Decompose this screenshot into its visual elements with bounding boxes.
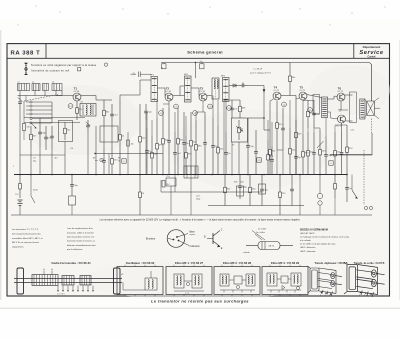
connector jack PU — [166, 178, 176, 186]
svg-text:Schéma général: Schéma général — [187, 49, 223, 54]
resistor R27 — [334, 175, 336, 184]
capacitor C10 — [145, 104, 147, 111]
antenna coil L3 — [43, 84, 49, 91]
capacitor on rail C15 — [200, 64, 205, 69]
resistor R7 — [139, 104, 141, 137]
svg-text:P.U.: P.U. — [167, 176, 171, 178]
resistor R33 — [267, 140, 269, 155]
antenna winding 3 — [80, 276, 91, 286]
wire left lower links — [20, 154, 65, 156]
battery supply — [19, 175, 21, 184]
ferrite antenna L1 — [18, 84, 30, 91]
capacitor C24 — [71, 175, 73, 185]
wire lower verticals — [299, 175, 301, 216]
output transformer S5 — [360, 99, 365, 119]
svg-text:1,4: 1,4 — [283, 104, 286, 106]
svg-text:ensembles filtres MF 1, MF 2,: ensembles filtres MF 1, MF 2, et — [12, 237, 43, 240]
svg-text:2: 2 — [325, 294, 326, 296]
svg-text:Département: Département — [363, 45, 381, 49]
driver transformer — [322, 97, 328, 118]
svg-text:2k7: 2k7 — [167, 184, 170, 186]
wire top rail — [161, 63, 372, 102]
svg-text:OA 70 ET OA 79: OA 70 ET OA 79 — [300, 232, 314, 235]
resistor R4 — [103, 100, 105, 110]
capacitor C27 — [291, 175, 293, 190]
wire pot down — [238, 142, 240, 175]
resistor R25 — [249, 175, 251, 188]
svg-text:9: 9 — [330, 163, 331, 165]
svg-text:3: 3 — [329, 294, 330, 296]
current point squares — [122, 159, 126, 163]
svg-text:R6: R6 — [71, 148, 73, 150]
svg-text:font respectivement partie: font respectivement partie des — [12, 233, 41, 236]
svg-text:0,2: 0,2 — [228, 108, 231, 110]
wire T5 emitter — [302, 99, 304, 102]
capacitor C16 — [238, 85, 242, 87]
ferrite antenna L2 — [32, 84, 40, 91]
capacitor C11 — [168, 108, 170, 140]
horizontal links left — [24, 117, 85, 119]
ferrite rod antenna drawing — [14, 278, 122, 280]
svg-text:Le 1er chiffre est le plu: Le 1er chiffre est le plus éloigné du co… — [300, 243, 336, 246]
transistor T1 — [73, 93, 81, 101]
header title block divider — [7, 57, 390, 59]
capacitor C17 — [231, 100, 233, 108]
capacitor C40 — [45, 126, 47, 137]
filter MF1 internals — [174, 274, 184, 288]
svg-text:à la cathode.: à la cathode. — [300, 239, 312, 242]
resistor R35 — [302, 134, 304, 152]
svg-text:pour le réglage de P.U.: pour le réglage de P.U. — [250, 71, 272, 74]
IF transformer MF3 — [223, 78, 230, 102]
capacitor C35 — [295, 140, 297, 156]
resistor R21 — [346, 125, 348, 147]
resistor R11 — [190, 112, 192, 141]
switch wiper arrow — [31, 123, 36, 128]
capacitor C3 — [51, 126, 53, 136]
wire output emitters — [340, 101, 342, 110]
svg-text:a1: a1 — [18, 82, 20, 84]
wire T1 collector — [81, 95, 96, 97]
svg-text:1er chiffre: 1er chiffre — [256, 232, 266, 234]
capacitor C2 — [39, 118, 41, 132]
capacitor C19 — [255, 130, 257, 151]
svg-text:10k: 10k — [131, 144, 134, 146]
resistor R24 — [224, 175, 226, 188]
capacitor C13 — [183, 112, 185, 142]
svg-text:C24: C24 — [196, 196, 199, 198]
svg-text:1 2 3 4 5: 1 2 3 4 5 — [57, 294, 66, 296]
voltage point T2 — [174, 104, 179, 109]
svg-text:DIODES AU GERMANIUM: DIODES AU GERMANIUM — [300, 229, 328, 232]
svg-text:OA 70: OA 70 — [268, 244, 275, 247]
capacitor C7 — [111, 104, 113, 114]
svg-text:100µ: 100µ — [242, 186, 247, 188]
transistor T5 — [299, 92, 307, 100]
wire T5 base — [296, 98, 299, 99]
resistor R6 — [111, 148, 113, 159]
resistor R23 — [139, 175, 141, 193]
wire T2 links — [156, 100, 158, 118]
svg-text:OC 72: OC 72 — [337, 91, 344, 93]
diode OA70 — [229, 85, 238, 87]
output stage outline box — [350, 92, 357, 123]
svg-text:que le détecteur.: que le détecteur. — [67, 248, 83, 251]
transistor symbol diagram — [212, 233, 214, 244]
svg-text:Oscillateur : FO 66 32: Oscillateur : FO 66 32 — [126, 261, 155, 265]
resistor R19 — [307, 132, 309, 151]
svg-text:C = 66 pF: C = 66 pF — [253, 69, 263, 71]
wire T4 base up — [269, 101, 271, 130]
svg-text:OA 79 : étalonnée: OA 79 : étalonnée — [300, 250, 316, 253]
wire detector out — [248, 85, 264, 87]
svg-text:T7: T7 — [338, 109, 342, 113]
svg-text:détériore immédiatement ains: détériore immédiatement ainsi — [67, 244, 96, 247]
IF transformer MF1 — [151, 77, 158, 102]
svg-text:Filtre MF 2 : FO 66 28: Filtre MF 2 : FO 66 28 — [223, 261, 252, 265]
resistor R17 — [295, 96, 297, 133]
capacitor C25 — [239, 175, 241, 186]
svg-text:OC 45: OC 45 — [199, 91, 206, 93]
svg-text:Émetteur: Émetteur — [146, 237, 156, 240]
antenna coil L4 — [52, 84, 62, 91]
svg-text:RA 388 T: RA 388 T — [11, 50, 41, 56]
svg-text:47k: 47k — [27, 127, 30, 129]
capacitor C32 — [212, 118, 214, 145]
voltage point T1 — [68, 104, 73, 109]
svg-text:0,7: 0,7 — [69, 106, 72, 108]
svg-text:OC 71: OC 71 — [273, 90, 280, 92]
svg-text:transistor monté à l'envers: transistor monté à l'envers se — [67, 240, 96, 243]
earphone jack — [317, 193, 322, 198]
svg-text:1,6: 1,6 — [309, 110, 312, 112]
capacitor C8 — [103, 148, 105, 160]
wire fill verticals — [146, 112, 148, 128]
svg-text:Cadre Ferroxcube : FO 66 31: Cadre Ferroxcube : FO 66 31 — [51, 261, 91, 265]
capacitor C14 — [204, 112, 206, 142]
detector transformer — [212, 78, 219, 99]
wire rail drop MF2 — [195, 63, 197, 79]
svg-text:1,2: 1,2 — [160, 113, 163, 115]
svg-text:1 2 3: 1 2 3 — [185, 293, 189, 295]
capacitor C21 — [313, 100, 315, 113]
wire to T4 base — [263, 118, 265, 130]
svg-text:Service: Service — [359, 50, 383, 56]
switch S2 mains — [30, 175, 32, 197]
svg-text:3: 3 — [370, 294, 371, 296]
resistor R32 — [217, 126, 219, 148]
wire nets T5 — [307, 128, 309, 132]
network box — [100, 126, 118, 142]
transistor T3 — [199, 93, 207, 101]
svg-text:séparément.: séparément. — [12, 245, 24, 248]
tuning gang dashed link — [24, 95, 58, 102]
capacitor C20 — [282, 108, 284, 128]
resistor R18 — [307, 100, 309, 111]
svg-text:cathode: cathode — [243, 251, 250, 254]
wire avc feedback line — [95, 153, 163, 155]
wire lower mid rail — [208, 205, 304, 207]
switch S3 — [351, 175, 353, 191]
svg-text:Les transistors T 1, T 2,: Les transistors T 1, T 2, T 3 — [12, 228, 39, 231]
svg-text:C: C — [221, 229, 223, 232]
resistor R42 — [127, 140, 130, 146]
capacitor C34 — [271, 146, 273, 159]
capacitor C36 — [325, 136, 327, 154]
thermistor R22 — [319, 130, 321, 150]
header service box — [353, 44, 355, 59]
transistor pinout diagram — [167, 230, 185, 248]
svg-text:10k: 10k — [93, 158, 96, 160]
resistor R26 — [279, 175, 281, 193]
terminal circles right — [364, 206, 367, 209]
svg-text:9 V: 9 V — [15, 194, 19, 196]
loudspeaker LS — [367, 101, 375, 116]
svg-text:Les tensions relevées avec: Les tensions relevées avec un appareil d… — [100, 219, 301, 222]
svg-text:2,5: 2,5 — [258, 160, 261, 162]
svg-text:S2: S2 — [81, 102, 83, 104]
resistor R3 — [76, 101, 78, 108]
oscillator trimmer C6 — [87, 120, 89, 125]
svg-text:transistor, veiller à le m: transistor, veiller à le monter — [67, 231, 94, 234]
svg-text:a3: a3 — [52, 82, 54, 84]
svg-text:OC 44: OC 44 — [73, 91, 80, 93]
svg-text:6: 6 — [123, 161, 124, 163]
IF transformer MF2 — [185, 76, 192, 102]
resistor R40 — [23, 124, 26, 131]
paper mottling — [20, 85, 140, 155]
svg-text:1: 1 — [101, 160, 102, 162]
wire T1 base — [56, 95, 73, 97]
volume potentiometer P1 — [232, 118, 248, 142]
svg-text:R8: R8 — [118, 158, 120, 160]
capacitor C31 — [174, 132, 176, 152]
wire driver secondary — [328, 98, 335, 100]
wire bottom rail — [11, 214, 372, 216]
svg-text:1k: 1k — [118, 160, 120, 162]
resistor R34 — [289, 128, 291, 149]
svg-text:MF 3. Ils ne sont pas fou: MF 3. Ils ne sont pas fournis — [12, 241, 39, 244]
transistor T4 — [273, 92, 281, 100]
wire bias links — [319, 128, 321, 130]
svg-text:OC 71: OC 71 — [299, 90, 306, 92]
svg-text:OA 70 : détectrice: OA 70 : détectrice — [300, 246, 315, 249]
voltage point T3 — [208, 104, 213, 109]
transistor T6 — [337, 93, 345, 101]
capacitor C23 — [341, 132, 343, 152]
svg-text:OC 45: OC 45 — [165, 91, 172, 93]
resistor R30 — [151, 136, 153, 153]
wire speaker dashed — [371, 119, 373, 134]
svg-text:Le transistor ne résiste p: Le transistor ne résiste pas aux surchar… — [151, 299, 249, 304]
filter MF3 internals — [267, 273, 277, 286]
capacitor C26 — [261, 175, 263, 190]
svg-text:1: 1 — [320, 294, 321, 296]
capacitor C30 — [146, 128, 148, 150]
svg-text:Le marquage se fait en an: Le marquage se fait en anneaux de couleu… — [300, 235, 350, 238]
svg-text:Tensions en volts négatives: Tensions en volts négatives par rapport … — [31, 63, 97, 67]
svg-text:2: 2 — [364, 294, 365, 296]
wire det links — [248, 117, 264, 119]
wire T4 collector — [281, 95, 296, 97]
wire antenna bottom — [18, 95, 63, 97]
svg-text:Intensités de courant en m: Intensités de courant en mA — [31, 68, 70, 72]
svg-text:repère: repère — [190, 234, 197, 236]
header model box — [45, 44, 47, 59]
svg-text:C4: C4 — [33, 158, 35, 160]
wire right rail lower — [371, 133, 373, 155]
capacitor C28 — [346, 175, 348, 188]
wave change switch S1 — [30, 101, 32, 103]
oscillator coil L5 — [80, 104, 96, 117]
svg-text:1,3: 1,3 — [194, 113, 197, 115]
svg-text:MF3: MF3 — [221, 75, 225, 77]
resistor R16 — [289, 63, 291, 77]
wire T4 nets — [276, 150, 278, 175]
wire T7 collector — [346, 120, 353, 122]
svg-text:2e chiffre: 2e chiffre — [258, 229, 267, 231]
svg-text:0,9: 0,9 — [175, 106, 178, 108]
svg-text:4k7: 4k7 — [55, 158, 58, 160]
wire collector net — [95, 96, 97, 101]
voltage circles extra — [159, 111, 164, 116]
voltage point T4 — [282, 102, 287, 107]
antenna lead pins — [57, 286, 59, 291]
oscillator unit internals — [145, 278, 157, 290]
resistor R5 — [119, 100, 121, 135]
variable capacitor CV1 — [19, 96, 21, 102]
wire T3 collector — [207, 95, 212, 97]
svg-text:Collecteur: Collecteur — [190, 245, 201, 248]
wire right rail to output — [330, 154, 372, 156]
resistor R1 — [30, 126, 32, 134]
resistor R13 — [239, 100, 241, 106]
svg-text:dans la position correcte.: dans la position correcte. Un — [67, 236, 95, 239]
wire main bus — [14, 174, 347, 176]
svg-text:Transfo. déphaseur : FB 84 B: Transfo. déphaseur : FB 84 B — [314, 262, 347, 265]
legend voltage symbol — [24, 63, 28, 69]
capacitor on rail C9 — [162, 64, 167, 69]
svg-text:R25: R25 — [234, 182, 237, 184]
capacitor C33 — [225, 132, 227, 152]
svg-text:Filtre MF 1 : FO 66 27: Filtre MF 1 : FO 66 27 — [175, 261, 204, 265]
svg-text:560: 560 — [241, 182, 244, 184]
capacitor C22 — [313, 132, 315, 152]
wire osc net — [87, 132, 89, 175]
wire mid lower line — [161, 191, 262, 193]
svg-text:MF1: MF1 — [150, 74, 154, 76]
svg-text:0,9: 0,9 — [209, 106, 212, 108]
wire T2 emitter — [168, 101, 170, 108]
resistor R8 — [162, 108, 164, 139]
antenna winding 2 — [62, 276, 74, 286]
wire T2 collector to MF2 — [173, 95, 185, 97]
antenna tags — [43, 271, 45, 275]
filter MF2 internals — [220, 274, 229, 286]
svg-text:Lors du remplacement d'un: Lors du remplacement d'un — [67, 227, 94, 230]
svg-text:12: 12 — [161, 68, 163, 70]
resistor R2 box — [59, 121, 73, 142]
wire T3 emitter — [202, 101, 204, 112]
wire MF1 to T2 — [158, 87, 166, 89]
transistor T2 — [165, 93, 173, 101]
resistor R15 — [276, 101, 278, 123]
svg-text:a2: a2 — [51, 269, 53, 271]
resistor R10 — [177, 108, 179, 139]
resistor R41 — [162, 181, 165, 188]
antenna winding 1 — [32, 275, 58, 286]
resistor R31 — [185, 136, 187, 153]
resistor R20 — [334, 132, 336, 151]
wire antenna verticals — [19, 110, 21, 175]
svg-text:a2: a2 — [32, 82, 34, 84]
svg-text:24: 24 — [242, 83, 244, 85]
svg-text:Filtre MF 3 : FO 66 29: Filtre MF 3 : FO 66 29 — [271, 261, 300, 265]
wire MF1 top — [140, 79, 151, 81]
transistor T7 — [338, 115, 346, 123]
wire T5 collector — [307, 95, 322, 98]
connector strip — [184, 166, 198, 178]
wire avc line — [224, 99, 240, 101]
wire T6 collector — [345, 94, 353, 96]
diode package drawing — [258, 242, 280, 250]
svg-text:S2: S2 — [121, 274, 123, 276]
driver stage outline — [313, 95, 320, 115]
wire dashed switch link — [363, 150, 365, 205]
svg-text:a1: a1 — [43, 269, 45, 271]
resistor R12 — [195, 120, 197, 145]
svg-text:Central: Central — [368, 55, 376, 58]
wire MF2 to T3 — [191, 87, 199, 89]
resistor R14 — [269, 130, 271, 150]
svg-text:0,15: 0,15 — [351, 130, 355, 132]
capacitor C18 — [247, 118, 249, 145]
wire right rail feeds — [351, 98, 353, 100]
schematic sheet border — [7, 44, 390, 296]
resistor R9 — [156, 118, 158, 144]
svg-text:1: 1 — [359, 294, 360, 296]
volume arrow — [263, 89, 266, 92]
svg-text:MF2: MF2 — [184, 74, 188, 76]
